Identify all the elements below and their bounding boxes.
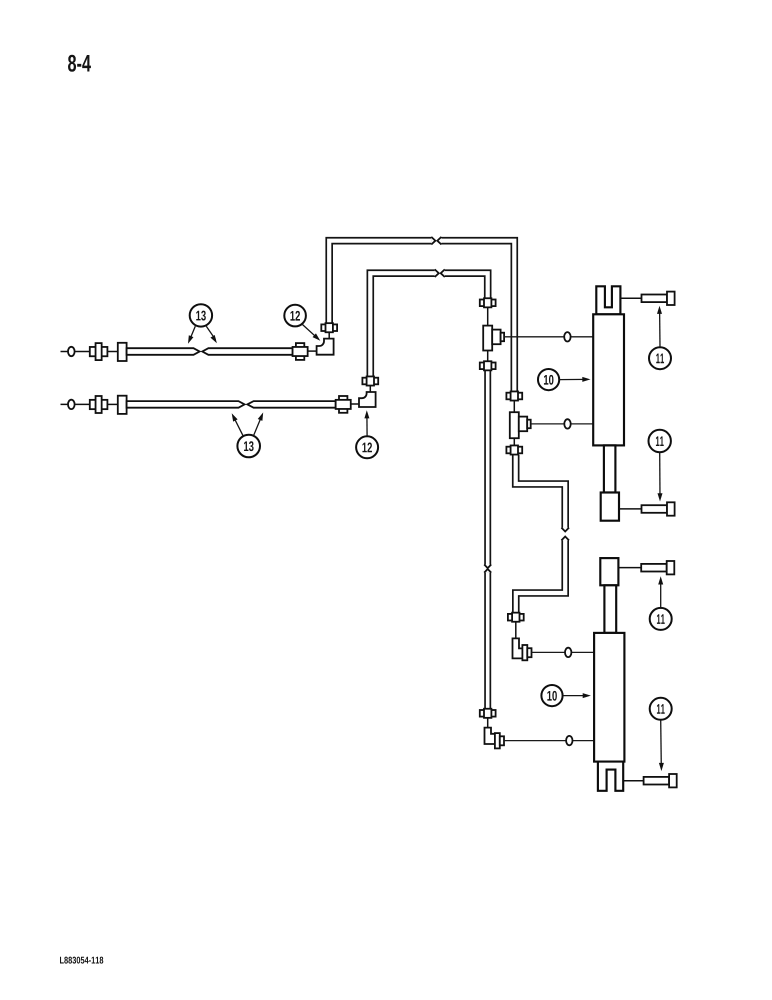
balloon 13 (upper hose) bbox=[186, 304, 219, 345]
tube 12-line A upper segment (from elbow 12 up and right) bbox=[329, 237, 435, 324]
wire bbox=[620, 297, 641, 299]
hose 13 lower o-ring end bbox=[68, 400, 75, 409]
page number 8-4 bbox=[68, 55, 91, 72]
wire bbox=[618, 567, 641, 569]
elbow 12 lower tube nut bbox=[362, 376, 378, 385]
elbow fitting 12 (upper) bbox=[317, 339, 334, 355]
balloon 11 (lower cylinder bottom bolt) bbox=[650, 698, 672, 771]
bolt 11 (upper cylinder bottom) bbox=[642, 502, 675, 515]
tube A right segment (to tee column) bbox=[437, 237, 514, 393]
hose assembly 13 (upper) : end line bbox=[61, 351, 91, 353]
hose 13 lower cross fitting bbox=[90, 396, 108, 413]
cylinder 10 (lower) rod end bbox=[600, 558, 618, 585]
wire bbox=[328, 331, 330, 339]
elbow side nut bbox=[522, 645, 531, 660]
elbow fitting at cylinder port (upper of lower cylinder) bbox=[513, 638, 524, 658]
hose 13 upper right section bbox=[202, 348, 292, 355]
hose 13 upper left section bbox=[127, 348, 200, 355]
hose 13 lower right cross fitting bbox=[336, 396, 351, 413]
balloon 11 (lower cylinder top bolt) bbox=[650, 576, 672, 630]
tee fitting outer column bbox=[510, 412, 531, 438]
wire bbox=[107, 403, 118, 405]
tube B upper segment (inner run from elbow 12) bbox=[370, 269, 439, 376]
hose assembly 13 (lower) : end line bbox=[61, 403, 91, 405]
wire bbox=[487, 351, 489, 363]
wire bbox=[623, 780, 643, 782]
figure code label bbox=[60, 957, 103, 964]
hose 13 upper nut bbox=[118, 343, 127, 361]
wire bbox=[369, 385, 371, 392]
cylinder 10 (lower) rod bbox=[604, 585, 616, 633]
wire bbox=[487, 307, 489, 325]
wire bbox=[308, 350, 317, 352]
hose 13 lower right section bbox=[247, 401, 335, 408]
hose 13 lower left section bbox=[127, 401, 245, 408]
tee fitting inner column bbox=[483, 326, 504, 351]
balloon 13 (lower hose) bbox=[229, 411, 265, 457]
outer column nut above tee bbox=[506, 391, 522, 400]
cylinder 10 (lower) body bbox=[594, 633, 624, 762]
bolt 11 (lower cylinder top) bbox=[641, 561, 674, 574]
balloon 12 (upper elbow) bbox=[284, 305, 322, 343]
balloon 11 (upper cylinder bottom bolt) bbox=[649, 430, 671, 502]
long tube end nut bbox=[480, 709, 496, 718]
port line upper cylinder bottom bbox=[531, 423, 594, 425]
cylinder 10 (upper) rod bbox=[604, 445, 616, 492]
cylinder 10 (upper) rod end bbox=[601, 493, 619, 521]
balloon 11 (upper cylinder top bolt) bbox=[649, 306, 671, 370]
elbow side nut bbox=[495, 733, 504, 748]
wire bbox=[107, 351, 118, 353]
hose 13 upper right cross fitting bbox=[293, 343, 308, 360]
elbow fitting at cylinder port (lower of lower cylinder) bbox=[485, 728, 496, 744]
balloon 10 (lower cylinder) bbox=[541, 685, 591, 706]
port o-ring bbox=[564, 419, 570, 428]
wire bbox=[515, 622, 517, 639]
port o-ring bbox=[564, 332, 570, 341]
hose 13 upper o-ring end bbox=[68, 347, 75, 356]
s-bend nut above lower elbow bbox=[508, 613, 524, 622]
inner column nut above tee bbox=[480, 298, 496, 307]
wire bbox=[487, 718, 489, 728]
bolt 11 (lower cylinder bottom) bbox=[644, 774, 677, 787]
tube B right segment (to inner tee column) bbox=[441, 269, 488, 299]
elbow 12 upper tube nut bbox=[321, 323, 337, 332]
hose 13 lower nut bbox=[118, 396, 127, 414]
port line lower cylinder top bbox=[532, 651, 595, 653]
wire bbox=[351, 403, 359, 405]
elbow fitting 12 (lower) bbox=[359, 392, 376, 407]
hose 13 upper cross fitting bbox=[90, 343, 108, 360]
wire bbox=[513, 438, 515, 446]
port line lower cylinder bottom bbox=[504, 740, 594, 742]
cylinder 10 (upper) body bbox=[593, 314, 624, 445]
port o-ring bbox=[566, 736, 572, 745]
inner column nut below tee bbox=[480, 361, 496, 370]
s-bend tube lower segment (down, left and down to elbow) bbox=[516, 537, 569, 614]
long tube down from inner tee, upper segment bbox=[484, 370, 491, 568]
cylinder 10 (lower) clevis bbox=[598, 762, 623, 791]
port line upper cylinder top bbox=[504, 336, 593, 338]
cylinder 10 (upper) clevis bbox=[596, 286, 620, 314]
outer column nut below tee bbox=[506, 445, 522, 454]
balloon 12 (lower elbow) bbox=[356, 410, 378, 458]
long tube lower segment bbox=[484, 569, 491, 710]
wire bbox=[513, 401, 515, 413]
balloon 10 (upper cylinder) bbox=[538, 369, 591, 390]
s-bend tube upper segment (from outer tee down) bbox=[516, 455, 569, 532]
port o-ring bbox=[565, 648, 571, 657]
wire bbox=[619, 508, 642, 510]
bolt 11 (upper cylinder top) bbox=[642, 292, 675, 305]
